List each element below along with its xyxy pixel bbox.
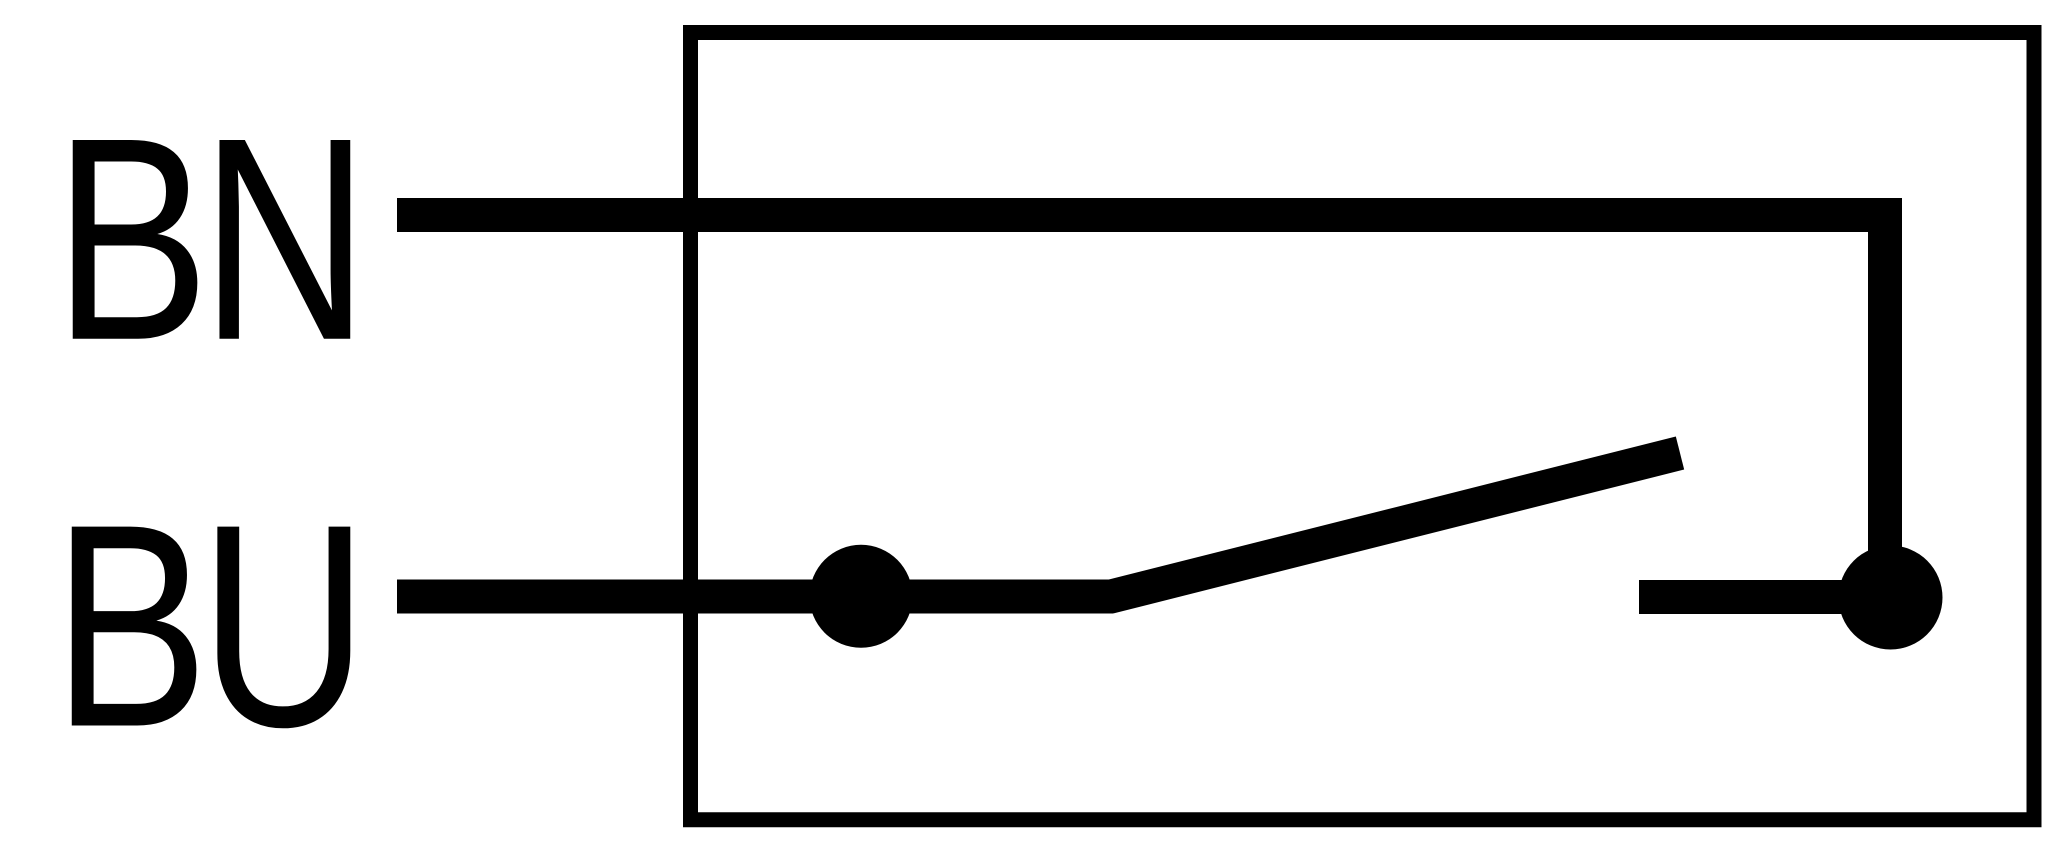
node left contact dot: [810, 545, 913, 648]
wire BU lead to left contact: [397, 580, 1113, 614]
wire BN lead to right contact: [397, 215, 1885, 560]
switch blade (NO contact): [1109, 453, 1680, 597]
svg-text:BU: BU: [53, 464, 359, 787]
wire right contact stub: [1639, 580, 1890, 614]
enclosure box: [691, 33, 2035, 820]
node right contact dot: [1839, 546, 1943, 650]
svg-text:BN: BN: [54, 77, 360, 400]
